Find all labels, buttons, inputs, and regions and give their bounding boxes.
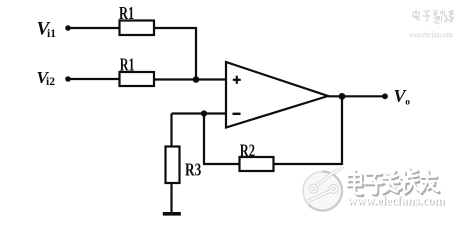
svg-text:o: o	[405, 98, 410, 108]
wire Vi1 terminal to R1a	[68, 27, 119, 29]
svg-text:www.elecfans.com: www.elecfans.com	[347, 193, 445, 207]
svg-text:i2: i2	[46, 76, 55, 88]
op-amp plus sign	[233, 76, 241, 84]
label Vi2	[37, 68, 56, 88]
wire Vi2 terminal to R1b	[68, 78, 119, 80]
wire to R2 left	[203, 163, 239, 165]
wire R1b to op-amp + input	[154, 78, 226, 80]
wire op-amp output	[328, 95, 383, 97]
svg-text:i1: i1	[47, 28, 56, 40]
terminal dot Vi1	[65, 25, 71, 31]
wire junction down to R2 branch	[203, 114, 205, 165]
wire R2 right to feedback corner	[274, 163, 343, 165]
ground	[163, 212, 181, 216]
resistor R1 (second, input Vi2)	[120, 72, 155, 86]
terminal dot Vi2	[65, 76, 71, 82]
watermark text www.elecfans.com (bottom right)	[347, 193, 446, 208]
svg-text:R3: R3	[185, 159, 201, 179]
svg-text:www.elecfans.com: www.elecfans.com	[409, 31, 453, 41]
op-amp minus sign	[233, 113, 241, 115]
label Vo	[394, 86, 411, 108]
label Vi1	[37, 19, 57, 41]
output junction dot	[339, 93, 346, 100]
resistor R3	[166, 147, 180, 184]
watermark small 电子发烧友 (top right)	[413, 10, 454, 23]
wire R1a to corner	[154, 27, 196, 29]
svg-text:R1: R1	[119, 3, 134, 23]
logo trace	[307, 191, 331, 202]
resistor R2	[240, 157, 274, 171]
op-amp U1 triangle	[226, 62, 328, 128]
terminal dot Vo	[382, 93, 388, 99]
svg-text:R2: R2	[240, 140, 255, 160]
resistor R1 (top, input Vi1)	[120, 21, 155, 36]
wire corner down to junction	[195, 27, 197, 80]
wire minus node down to R3	[170, 114, 172, 147]
feedback wire up to output	[341, 97, 343, 166]
wire op-amp - input to left	[172, 112, 227, 114]
logo wavy lead	[317, 167, 343, 186]
logo node ring right	[330, 186, 336, 192]
logo node ring left	[310, 185, 316, 191]
wire R3 to ground	[170, 183, 172, 212]
junction dot on minus wire	[201, 110, 207, 116]
junction node dot (summing node)	[193, 76, 200, 83]
watermark logo circle (bottom right)	[303, 167, 343, 211]
svg-text:R1: R1	[120, 55, 135, 75]
